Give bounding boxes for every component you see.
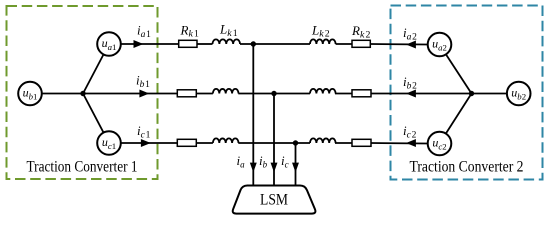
junction dot row b tap xyxy=(271,91,276,96)
inductor row b left xyxy=(213,89,239,94)
arrow i_a down xyxy=(250,163,256,171)
LSM trapezoid xyxy=(233,186,316,214)
resistor R_k1 xyxy=(179,40,197,47)
source u_b2 xyxy=(507,82,531,106)
vertical tap wire a xyxy=(252,44,254,186)
Traction Converter 2 box xyxy=(391,6,543,180)
wire row b: resistor to right junction xyxy=(371,93,472,95)
wire right junction to u_b2 xyxy=(472,93,507,95)
inductor row c right xyxy=(310,138,336,143)
source u_b1 xyxy=(18,82,42,106)
junction dot row a tap xyxy=(251,41,256,46)
wire row b: coil to coil xyxy=(238,93,310,95)
wire right junction to u_c2 (diagonal) xyxy=(440,94,472,144)
junction dot row c tap xyxy=(293,140,298,145)
inductor L_k2 xyxy=(310,39,336,44)
arrow i_b1 xyxy=(140,90,148,97)
wire row a: R_k2 to u_a2 xyxy=(370,43,427,46)
junction dot left xyxy=(80,91,85,96)
wire row c: coil to resistor xyxy=(335,142,352,144)
arrow i_b down xyxy=(271,163,277,171)
Traction Converter 1 box xyxy=(7,6,158,179)
junction dot right xyxy=(469,91,474,96)
arrow i_b2 xyxy=(407,90,415,97)
wire row c: coil to coil xyxy=(238,142,310,144)
svg-text:LSM: LSM xyxy=(260,192,288,209)
wire row c: resistor to u_c2 xyxy=(370,142,427,145)
resistor row b left xyxy=(177,90,196,97)
wire row a: L_k2 to R_k2 xyxy=(336,43,352,45)
inductor row b right xyxy=(310,89,336,94)
svg-text:Traction Converter 2: Traction Converter 2 xyxy=(410,159,524,176)
svg-text:Traction Converter 1: Traction Converter 1 xyxy=(27,159,138,176)
wire row c: resistor to coil xyxy=(196,142,213,144)
arrow i_a1 xyxy=(134,41,142,48)
wire row a: L_k1 to L_k2 xyxy=(240,43,310,45)
arrow i_c2 xyxy=(407,140,415,147)
arrow i_c down xyxy=(293,163,299,171)
resistor row b right xyxy=(352,90,371,97)
source u_c1 xyxy=(97,131,121,155)
inductor L_k1 xyxy=(213,39,241,44)
wire row a: u_a1 to R_k1 xyxy=(121,43,179,45)
arrow i_c1 xyxy=(141,140,149,147)
wire row b: resistor to coil xyxy=(196,93,213,95)
wire row c: u_c1 to resistor xyxy=(121,142,177,144)
wire u_b1 to left junction xyxy=(42,93,83,95)
vertical tap wire b xyxy=(273,94,275,186)
wire row b: junction to R_k1b xyxy=(83,93,177,95)
arrow i_a2 xyxy=(407,41,415,48)
resistor R_k2 xyxy=(352,40,370,47)
wire row a: R_k1 to L_k1 xyxy=(197,43,213,45)
wire left junction to u_a1 (diagonal) xyxy=(83,44,109,94)
vertical tap wire c xyxy=(295,143,297,186)
resistor row c right xyxy=(352,139,371,146)
wire left junction to u_c1 (diagonal) xyxy=(83,94,109,144)
resistor row c left xyxy=(177,139,196,146)
inductor row c left xyxy=(213,138,239,143)
wire row b: coil to resistor xyxy=(335,93,352,95)
source u_a1 xyxy=(97,32,121,56)
wire right junction to u_a2 (diagonal) xyxy=(440,45,472,94)
source u_a2 xyxy=(428,33,452,57)
source u_c2 xyxy=(428,132,452,156)
